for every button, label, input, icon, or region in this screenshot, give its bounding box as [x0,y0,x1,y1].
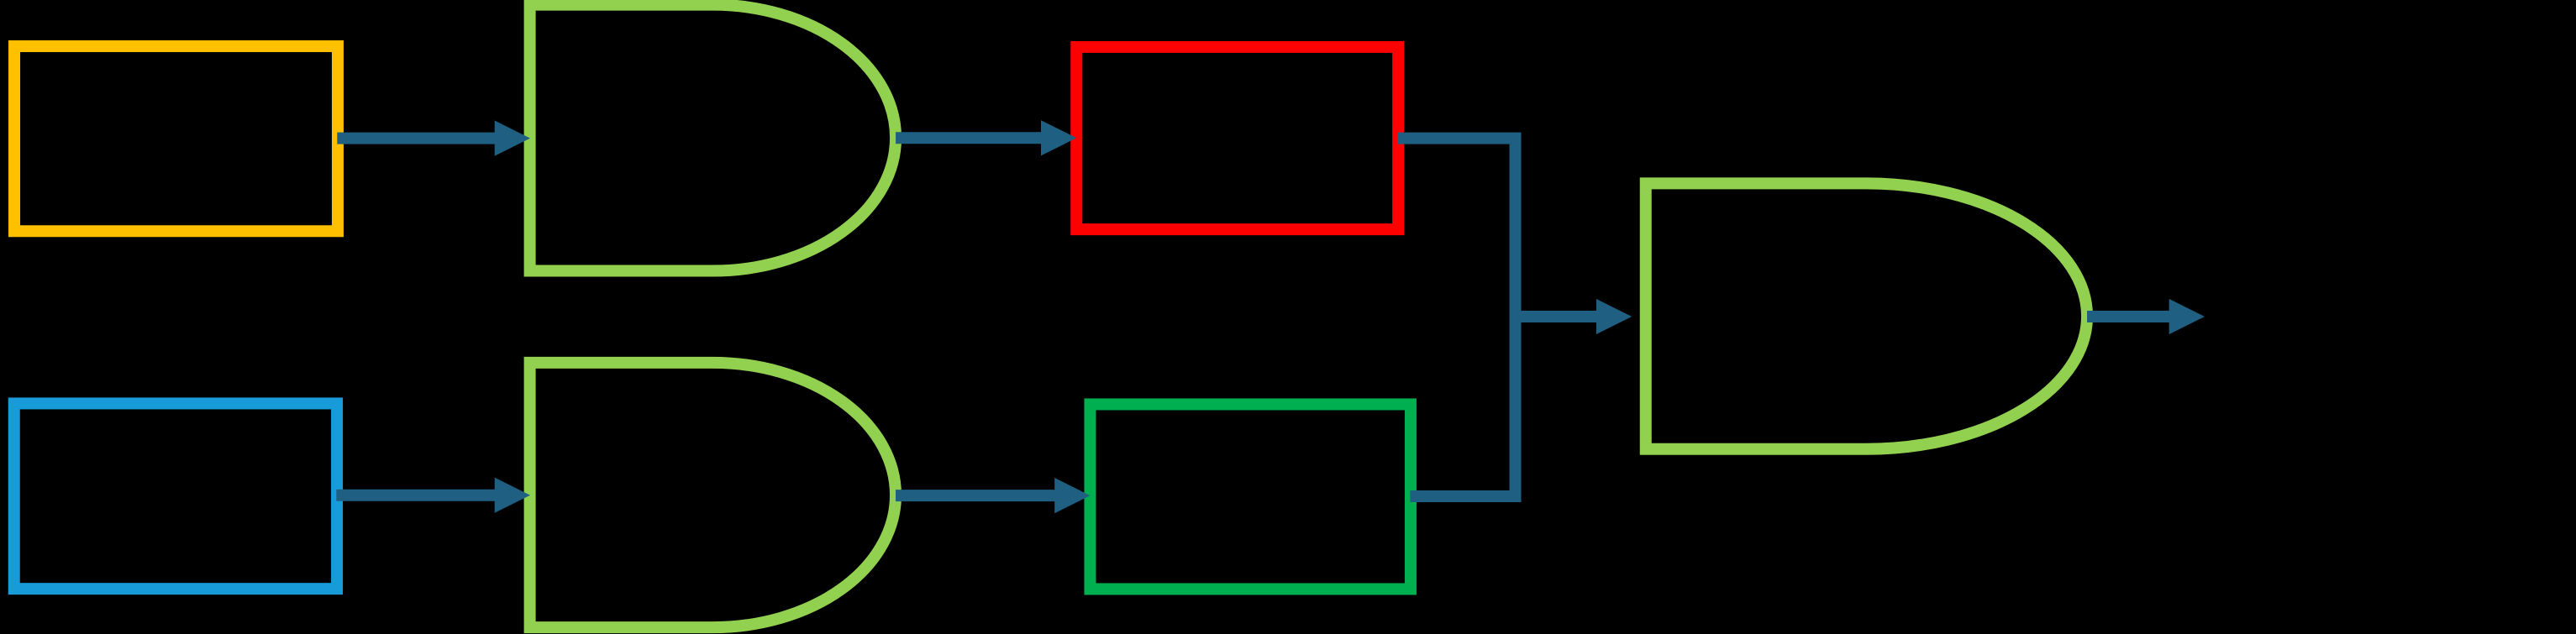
wire: AND gate 1 to red box [896,120,1076,155]
wire: green box elbow up to junction [1410,312,1515,496]
wire: orange box to AND gate 1 [337,121,530,156]
node: green box [1090,404,1411,589]
wire: junction arrow into big AND gate [1511,299,1632,334]
wire: red box elbow down to junction [1397,139,1515,322]
node: blue input box [14,403,337,589]
big AND gate (delay shape, light green) [1646,183,2087,448]
AND gate 2 (delay shape, light green) [530,363,896,627]
wire: output arrow from big AND gate [2087,299,2205,334]
wire: AND gate 2 to green box [896,478,1091,513]
wire: blue box to AND gate 2 [336,478,530,513]
node: orange input box [14,46,338,231]
AND gate 1 (delay shape, light green) [530,5,896,271]
node: red box [1076,47,1398,229]
